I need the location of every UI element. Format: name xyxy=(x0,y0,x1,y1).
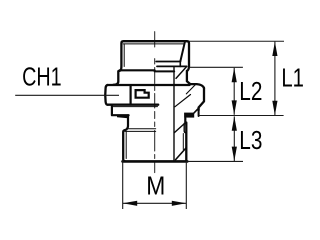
hex corner right edge xyxy=(199,88,204,110)
svg-text:L3: L3 xyxy=(239,126,262,155)
shoulder line right xyxy=(155,70,175,71)
arrow L2 down xyxy=(232,100,237,114)
thread start chamfer line lower xyxy=(125,130,156,132)
arrow L1 down xyxy=(272,101,277,115)
end chamfer diagonal xyxy=(176,148,187,160)
collar top line xyxy=(112,106,158,108)
arrow L3 up xyxy=(232,116,237,130)
arrow M left xyxy=(123,201,137,206)
seal right block xyxy=(184,113,194,118)
extension line M right xyxy=(185,161,187,209)
counterbore step xyxy=(179,62,181,67)
stud crest right xyxy=(185,123,187,161)
stud root left xyxy=(125,132,127,159)
dimension line L1 xyxy=(274,42,276,116)
svg-text:M: M xyxy=(146,172,165,201)
undercut cone diagonal xyxy=(174,124,184,133)
spiral logo xyxy=(136,90,149,98)
top thread root line left xyxy=(123,44,125,67)
arrow L2 up xyxy=(232,68,237,82)
hex bottom edge xyxy=(108,104,159,106)
counterbore line xyxy=(157,65,187,67)
thread start chamfer line upper xyxy=(128,128,155,130)
extension line middle xyxy=(199,115,284,117)
extension line L2 top xyxy=(190,66,243,68)
hex corner chamfer line xyxy=(186,84,196,94)
stud neck left xyxy=(125,115,128,130)
hex left face xyxy=(105,85,107,105)
hex edge xyxy=(130,85,132,104)
arrow L1 up xyxy=(272,42,277,56)
cone bottom line xyxy=(156,61,180,63)
seal left wedge xyxy=(117,116,129,119)
dimension line M xyxy=(123,202,186,204)
svg-text:L1: L1 xyxy=(281,63,304,92)
dimension line L2 xyxy=(233,68,235,115)
centerline xyxy=(154,32,156,173)
hex nut top edge xyxy=(107,84,189,86)
collar corner to seal xyxy=(194,109,198,113)
extension line top xyxy=(189,40,284,42)
arrow L3 down xyxy=(232,147,237,161)
extension line bottom xyxy=(187,160,243,162)
arrow M right xyxy=(172,201,186,206)
cone diagonal xyxy=(176,66,187,78)
extension line M left xyxy=(122,161,124,210)
collar right face xyxy=(198,108,200,117)
bore wall xyxy=(173,66,175,160)
stud undercut right xyxy=(184,123,186,132)
stud crest left xyxy=(123,130,125,161)
dimension line L3 xyxy=(233,116,235,161)
stud root right xyxy=(182,134,184,150)
thread runout slant xyxy=(180,42,185,61)
top face chamfer line xyxy=(123,43,184,45)
neck right profile xyxy=(187,66,204,88)
collar left edge xyxy=(112,106,129,115)
stud neck right xyxy=(184,118,186,123)
svg-text:CH1: CH1 xyxy=(22,62,62,91)
shoulder line left xyxy=(120,69,155,71)
hex bore chamfer diagonal xyxy=(175,95,191,107)
neck left profile xyxy=(114,67,122,85)
svg-text:L2: L2 xyxy=(239,77,262,106)
bottom face xyxy=(123,160,188,163)
top thread body outline xyxy=(121,41,189,66)
leader line CH1 xyxy=(15,94,119,96)
